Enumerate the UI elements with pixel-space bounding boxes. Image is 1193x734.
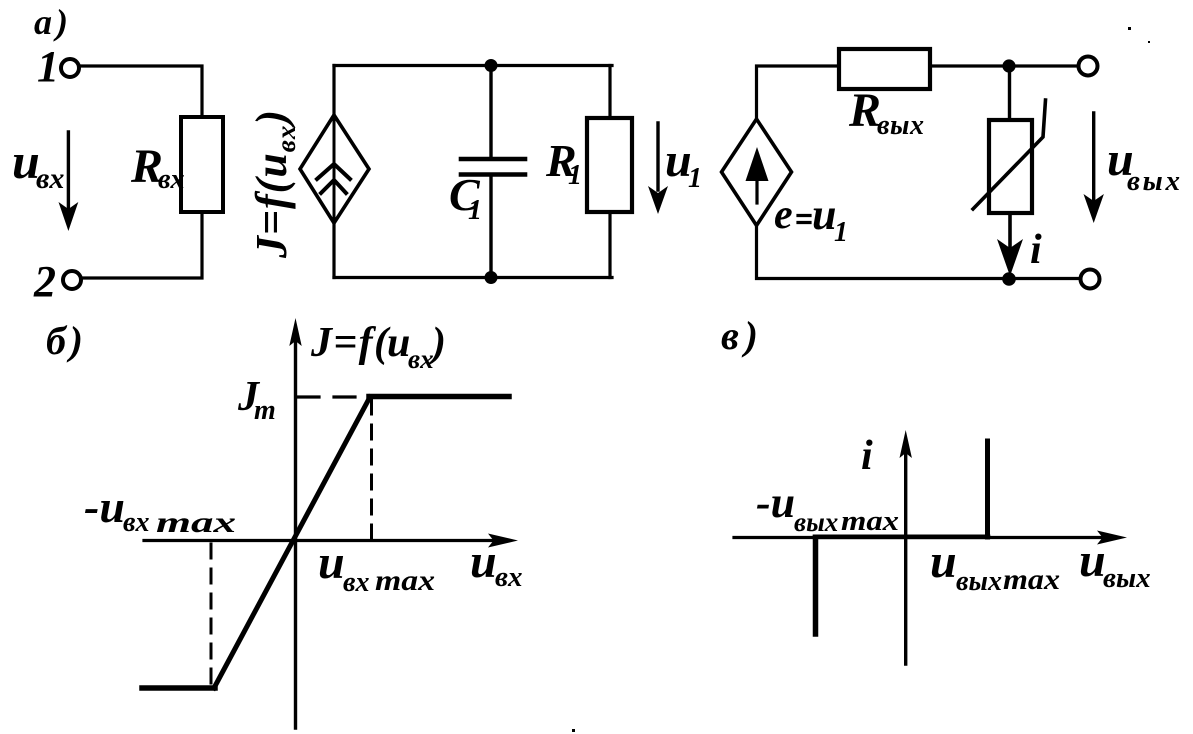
svg-text:-u: -u — [756, 478, 795, 527]
resistor R1 — [587, 66, 632, 278]
svg-text:i: i — [1030, 227, 1042, 273]
svg-text:1: 1 — [468, 195, 482, 226]
junction dot bottom — [1002, 272, 1016, 286]
dashed level Jm — [298, 395, 371, 398]
arrow u1 — [648, 123, 668, 214]
svg-text:u: u — [318, 536, 345, 589]
output terminal top — [1079, 57, 1098, 76]
svg-text:а): а) — [34, 2, 68, 42]
wire source e bottom to output terminal bottom — [757, 226, 1081, 279]
output terminal bottom — [1081, 270, 1100, 289]
junction dot top — [1002, 59, 1015, 72]
svg-text:б): б) — [46, 318, 83, 363]
wire Rвых to output terminal — [930, 64, 1078, 67]
label uвых max — [930, 535, 1060, 597]
junction dot bottom of C1 — [485, 271, 498, 284]
label uвх — [12, 133, 64, 195]
svg-text:вых: вых — [1127, 165, 1180, 197]
i=0 segment on axis — [815, 534, 988, 539]
graph v vertical axis — [900, 430, 912, 664]
ink speck below graph b — [572, 729, 575, 732]
dashed vertical at uвх max — [370, 400, 373, 539]
label -uвх max — [84, 481, 236, 539]
svg-text:1: 1 — [688, 163, 702, 194]
wire source e top to Rвых — [757, 66, 840, 119]
spike down at -uвых max — [813, 538, 819, 634]
label uвх axis — [470, 535, 522, 593]
svg-text:max: max — [841, 506, 899, 537]
label Rвых — [848, 84, 924, 141]
svg-text:u: u — [812, 190, 836, 239]
wire terminal1 to Rвх top — [80, 66, 202, 117]
svg-text:1: 1 — [834, 217, 848, 248]
junction dot top of C1 — [485, 59, 498, 72]
saturation line top — [369, 394, 509, 400]
saturation line bottom — [142, 685, 215, 691]
svg-text:1: 1 — [568, 160, 582, 191]
graph v horizontal axis — [734, 531, 1127, 545]
svg-text:вых: вых — [794, 507, 838, 537]
dashed vertical at -uвх max — [210, 544, 213, 688]
svg-text:u: u — [930, 535, 957, 588]
svg-text:-u: -u — [84, 481, 125, 532]
svg-text:вх: вх — [36, 162, 64, 195]
svg-text:e: e — [774, 192, 793, 238]
transfer diagonal — [214, 397, 370, 688]
wire bottom rail — [334, 276, 612, 279]
terminal 1 — [61, 59, 79, 77]
svg-text:вх: вх — [408, 344, 434, 374]
terminal 2 — [63, 271, 81, 289]
graph b vertical axis — [289, 318, 301, 728]
label C1 — [449, 169, 482, 226]
wire top rail — [334, 64, 612, 67]
svg-text:вх: вх — [343, 567, 370, 598]
label e=u1 — [774, 190, 848, 248]
svg-text:вых: вых — [1103, 562, 1151, 594]
ink speck top right — [1128, 27, 1131, 30]
svg-text:u: u — [387, 320, 410, 366]
label uвых — [1107, 133, 1180, 197]
svg-text:max: max — [375, 564, 435, 597]
label uвх max — [318, 536, 435, 598]
wire rail down to source top — [332, 66, 335, 116]
arrow uвых — [1084, 113, 1104, 223]
label u1 — [665, 134, 702, 194]
wire Rвх bottom to terminal 2 — [82, 212, 202, 278]
arrow uвх — [59, 132, 79, 231]
svg-text:вых: вых — [877, 110, 924, 141]
svg-text:вых: вых — [956, 566, 1002, 597]
svg-text:m: m — [254, 395, 276, 426]
svg-text:вх: вх — [495, 561, 522, 593]
nonlinear resistor (varistor) — [973, 100, 1046, 213]
label -uвых max — [756, 478, 899, 537]
spike up at uвых max — [985, 441, 990, 537]
capacitor C1 — [461, 66, 525, 278]
dependent current source J=f(uвх) — [300, 115, 369, 223]
arrow i — [997, 213, 1023, 276]
ink speck top right 2 — [1148, 41, 1150, 43]
label Jm — [237, 374, 276, 426]
resistor Rвых — [839, 49, 930, 89]
resistor Rвх — [181, 117, 223, 212]
svg-text:вх: вх — [123, 507, 150, 538]
wire junction down to varistor — [1008, 66, 1011, 120]
svg-text:1: 1 — [37, 42, 59, 91]
graph b horizontal axis — [144, 534, 518, 548]
svg-text:2: 2 — [33, 257, 56, 306]
svg-text:J=f(: J=f( — [310, 320, 391, 366]
label uвых axis — [1079, 534, 1151, 594]
label Rвх — [130, 140, 185, 195]
wire source bottom to bottom rail — [332, 223, 335, 278]
svg-text:i: i — [861, 433, 873, 479]
label R1 — [545, 135, 582, 191]
svg-text:max: max — [156, 506, 236, 539]
label J=f(uвх) graph — [310, 320, 446, 374]
svg-text:u: u — [1079, 534, 1106, 587]
svg-text:u: u — [470, 535, 497, 588]
svg-text:вх: вх — [158, 164, 185, 195]
svg-text:max: max — [1003, 563, 1060, 596]
dependent voltage source e=u1 — [722, 119, 792, 226]
